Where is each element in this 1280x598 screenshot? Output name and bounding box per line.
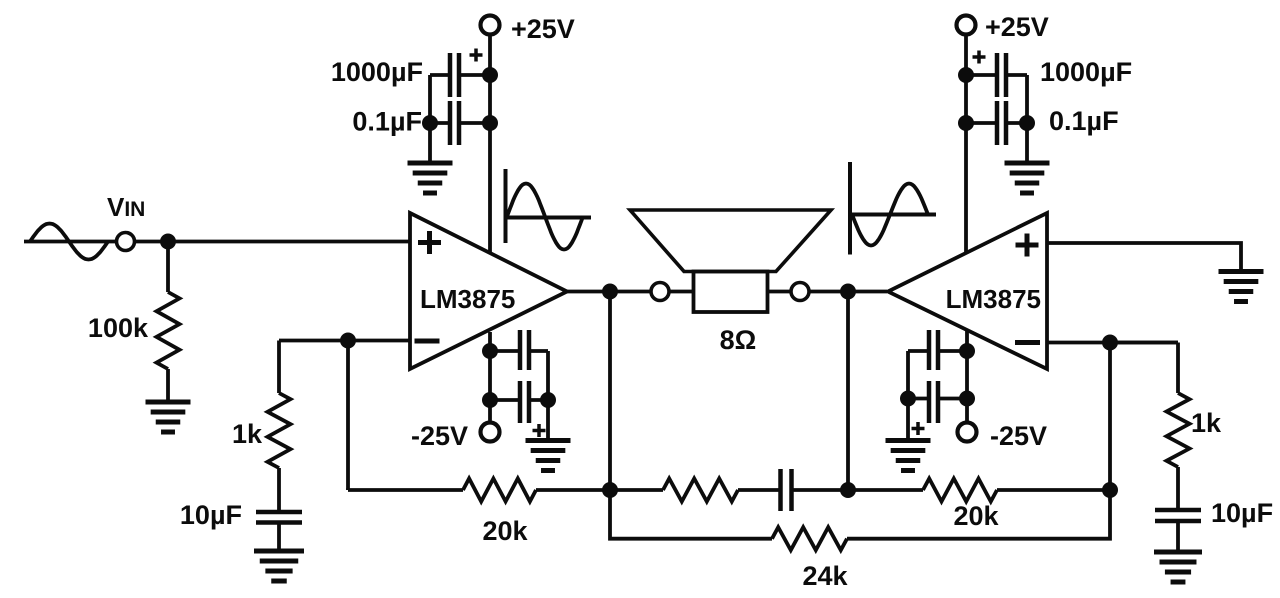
svg-text:10µF: 10µF xyxy=(1211,498,1273,528)
ground below 10uF left xyxy=(254,551,304,581)
label 20k left xyxy=(482,516,528,546)
label LM3875 right xyxy=(946,284,1041,314)
label -25V right xyxy=(990,421,1047,451)
node input junction xyxy=(160,234,176,250)
label 10uF right xyxy=(1211,498,1273,528)
wire left bypass down xyxy=(428,75,432,163)
speaker LS1 magnet box xyxy=(694,272,768,313)
node bypass junction left xyxy=(422,115,438,131)
resistor 20k left xyxy=(463,479,536,502)
resistor 20k right xyxy=(923,479,997,502)
svg-text:10µF: 10µF xyxy=(180,500,242,530)
node right feedback bottom xyxy=(1102,482,1118,498)
label 1k right xyxy=(1191,408,1222,438)
wire 100k top lead xyxy=(166,242,170,293)
speaker LS1 cone xyxy=(630,210,831,272)
node left feedback tap xyxy=(340,333,356,349)
pin + marker U1 xyxy=(418,231,441,254)
resistor center snubber xyxy=(663,479,738,502)
svg-text:8Ω: 8Ω xyxy=(720,325,757,355)
wire 1k right top lead xyxy=(1110,343,1178,394)
node U2 V- lower xyxy=(959,391,975,407)
wire right-bottom bypass link xyxy=(906,351,910,399)
label LM3875 left xyxy=(420,284,515,314)
svg-text:24k: 24k xyxy=(802,561,848,591)
wire input to noninverting input xyxy=(135,240,411,244)
wire 24k rail right xyxy=(847,490,1110,539)
wire input stub xyxy=(24,240,117,244)
polarity + for 1000uF right-bottom xyxy=(912,422,925,435)
node +25V right rail at 0.1uF xyxy=(958,115,974,131)
output sine graph right xyxy=(850,162,936,255)
wire U2 noninverting to ground xyxy=(1047,243,1241,271)
polarity + for 1000uF right-top xyxy=(973,51,986,64)
svg-text:100k: 100k xyxy=(88,313,149,343)
terminal speaker left xyxy=(651,283,669,301)
resistor 1k right xyxy=(1167,393,1190,467)
capacitor 0.1uF left-bottom xyxy=(520,330,529,370)
terminal -25V left xyxy=(481,423,500,442)
capacitor 1000uF left-bottom xyxy=(520,381,529,423)
wire to ground right-bottom xyxy=(906,399,910,441)
wire left-bottom bypass link xyxy=(546,351,550,400)
wire center cap to right node xyxy=(791,488,923,492)
terminal VIN input xyxy=(117,233,135,251)
wire center resistor to cap xyxy=(738,488,781,492)
node U1 V- upper xyxy=(482,343,498,359)
node left output bottom xyxy=(602,482,618,498)
ground below 100k xyxy=(146,402,191,432)
output sine graph left xyxy=(506,169,592,250)
wire to ground left-bottom xyxy=(546,400,550,440)
node right output bottom xyxy=(840,482,856,498)
svg-text:+25V: +25V xyxy=(985,12,1049,42)
capacitor center snubber xyxy=(781,469,792,511)
label 10uF left xyxy=(180,500,242,530)
wire left output down xyxy=(608,292,612,491)
capacitor 1000uF right-top leads xyxy=(966,73,1027,77)
wire U2 inverting input xyxy=(1047,341,1178,345)
node U1 V- lower xyxy=(482,392,498,408)
resistor 1k left xyxy=(268,393,291,468)
svg-text:1k: 1k xyxy=(1191,408,1222,438)
op-amp U1 LM3875 body xyxy=(410,213,567,369)
svg-text:LM3875: LM3875 xyxy=(420,284,515,314)
wire right feedback up xyxy=(1108,343,1112,491)
wire speaker right lead xyxy=(768,290,792,294)
capacitor 0.1uF right-bottom xyxy=(929,330,938,370)
wire +25V rail right xyxy=(964,34,968,253)
pin + marker U2 xyxy=(1016,234,1039,257)
capacitor 10uF right xyxy=(1155,510,1201,521)
pin - marker U1 xyxy=(415,339,440,344)
svg-text:1k: 1k xyxy=(232,419,263,449)
label 0.1uF right xyxy=(1049,106,1119,136)
label 8ohm xyxy=(720,325,757,355)
svg-text:20k: 20k xyxy=(482,516,528,546)
wire 24k rail left xyxy=(610,490,772,539)
ground below right supply caps xyxy=(1005,163,1050,193)
op-amp U2 LM3875 body xyxy=(888,213,1047,369)
capacitor 0.1uF right-top leads xyxy=(966,121,1027,125)
wire 20k left to output node xyxy=(536,488,663,492)
terminal -25V right xyxy=(958,423,977,442)
label +25V right xyxy=(985,12,1049,42)
wire +25V rail left xyxy=(488,34,492,253)
svg-text:LM3875: LM3875 xyxy=(946,284,1041,314)
resistor 100k xyxy=(157,292,180,369)
polarity + for 1000uF left-top xyxy=(470,49,483,62)
capacitor 1000uF right-bottom xyxy=(929,381,938,423)
svg-text:-25V: -25V xyxy=(411,421,468,451)
label -25V left xyxy=(411,421,468,451)
capacitor 10uF left xyxy=(256,512,302,523)
node right feedback tap xyxy=(1102,335,1118,351)
wire U1 inverting input xyxy=(279,339,410,343)
capacitor 1000uF right-top xyxy=(997,53,1006,97)
svg-text:1000µF: 1000µF xyxy=(1040,57,1132,87)
node bypass junction right xyxy=(1019,115,1035,131)
svg-text:20k: 20k xyxy=(953,501,999,531)
node left output xyxy=(602,284,618,300)
wire speaker to U2 output xyxy=(809,290,887,294)
terminal +25V right xyxy=(957,16,976,35)
AC input source sine squiggle xyxy=(30,224,108,260)
node right output xyxy=(840,284,856,300)
polarity + for 1000uF left-bottom xyxy=(533,424,546,437)
svg-text:0.1µF: 0.1µF xyxy=(1049,106,1119,136)
wire 1k left bottom lead xyxy=(277,468,281,513)
ground below 10uF right xyxy=(1154,552,1202,582)
capacitor 1000uF left-top leads xyxy=(430,73,490,77)
capacitor 0.1uF left-top xyxy=(450,101,459,145)
wire 20k right to node xyxy=(997,488,1110,492)
node +25V right rail at 1000uF xyxy=(958,67,974,83)
resistor 24k xyxy=(772,527,847,550)
wire 1k left top lead xyxy=(277,341,281,394)
label +25V left xyxy=(511,14,575,44)
capacitor 0.1uF right-bottom leads xyxy=(908,349,967,353)
wire U2 V- stub xyxy=(965,331,969,422)
wire 10uF right to ground xyxy=(1176,522,1180,552)
capacitor 1000uF left-top xyxy=(450,53,459,97)
node U2 V- upper xyxy=(959,343,975,359)
pin - marker U2 xyxy=(1015,340,1040,345)
wire speaker left lead xyxy=(669,290,694,294)
svg-text:+25V: +25V xyxy=(511,14,575,44)
label 1k left xyxy=(232,419,263,449)
wire right bypass down xyxy=(1025,75,1029,163)
capacitor 0.1uF left-bottom leads xyxy=(490,349,548,353)
node +25V rail at 1000uF xyxy=(482,67,498,83)
wire left feedback rail xyxy=(348,488,463,490)
label 100k xyxy=(88,313,149,343)
capacitor 0.1uF left-top leads xyxy=(430,121,490,125)
wire U1 V- stub xyxy=(488,332,492,421)
capacitor 1000uF right-bottom leads xyxy=(908,397,967,401)
ground below left -25V caps xyxy=(526,441,571,471)
label 0.1uF left xyxy=(352,107,422,137)
wire right output down xyxy=(846,292,850,491)
wire 10uF left to ground xyxy=(277,524,281,551)
label 20k right xyxy=(953,501,999,531)
wire U1 output xyxy=(567,290,652,294)
svg-text:0.1µF: 0.1µF xyxy=(352,107,422,137)
capacitor 1000uF left-bottom leads xyxy=(490,398,548,402)
label 1000uF right xyxy=(1040,57,1132,87)
svg-text:-25V: -25V xyxy=(990,421,1047,451)
node left-bottom bypass junction xyxy=(540,392,556,408)
wire 100k bottom lead xyxy=(166,369,170,402)
terminal +25V left xyxy=(481,16,500,35)
ground at U2 + input xyxy=(1219,272,1264,302)
label 24k xyxy=(802,561,848,591)
svg-text:1000µF: 1000µF xyxy=(331,57,423,87)
wire feedback tap down xyxy=(346,341,350,491)
wire 1k right bottom lead xyxy=(1176,467,1180,511)
ground below right -25V caps xyxy=(886,441,931,471)
terminal speaker right xyxy=(791,283,809,301)
label VIN xyxy=(107,192,145,222)
capacitor 0.1uF right-top xyxy=(997,101,1006,145)
node right-bottom bypass junction xyxy=(900,391,916,407)
node +25V rail at 0.1uF xyxy=(482,115,498,131)
ground below left supply caps xyxy=(408,163,453,193)
label 1000uF left xyxy=(331,57,423,87)
